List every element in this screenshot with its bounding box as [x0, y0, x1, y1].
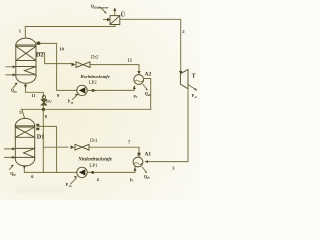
svg-text:2: 2	[182, 29, 184, 34]
svg-text:Kühlwasser: Kühlwasser	[94, 5, 109, 9]
svg-text:Ü: Ü	[121, 11, 126, 18]
svg-text:LP1: LP1	[89, 164, 98, 169]
svg-text:D2: D2	[36, 51, 44, 58]
svg-text:Dr1: Dr1	[90, 139, 98, 144]
svg-text:el: el	[195, 96, 197, 99]
svg-text:LP2: LP2	[89, 81, 98, 86]
svg-text:Niederdruckstufe: Niederdruckstufe	[77, 158, 112, 163]
svg-text:T: T	[192, 73, 196, 79]
svg-text:A1: A1	[145, 152, 152, 158]
svg-text:Dr2: Dr2	[91, 55, 99, 60]
svg-text:A2: A2	[145, 72, 152, 78]
svg-text:1: 1	[19, 29, 21, 34]
svg-text:11: 11	[31, 93, 35, 98]
svg-text:12: 12	[127, 57, 131, 62]
svg-text:RV: RV	[46, 99, 53, 104]
svg-text:D1: D1	[37, 134, 45, 141]
svg-text:Hochdruckstufe: Hochdruckstufe	[79, 74, 109, 79]
